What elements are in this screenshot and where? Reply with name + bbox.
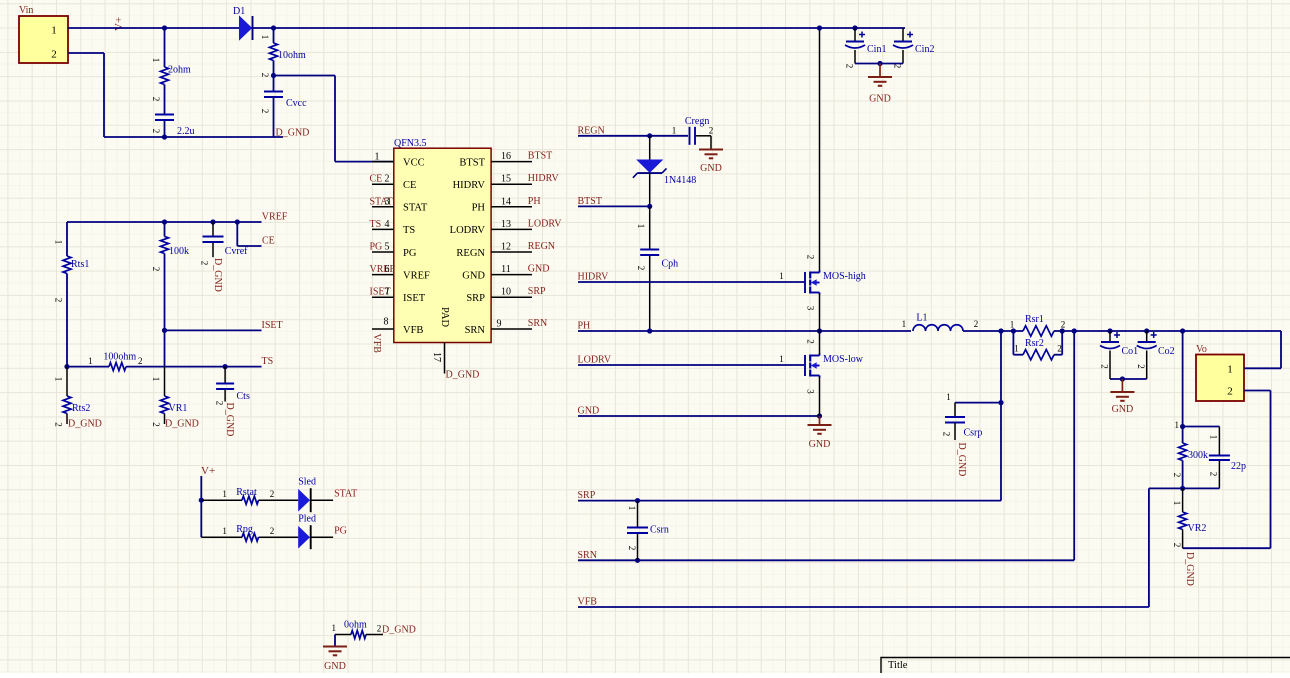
svg-text:PH: PH	[528, 196, 541, 207]
svg-text:CE: CE	[403, 180, 416, 191]
svg-text:2: 2	[151, 267, 161, 272]
svg-text:3: 3	[806, 389, 816, 394]
svg-text:GND: GND	[324, 661, 346, 672]
svg-text:D_GND: D_GND	[446, 370, 480, 381]
svg-text:2: 2	[1209, 472, 1219, 477]
svg-text:GND: GND	[809, 439, 831, 450]
svg-text:2: 2	[636, 266, 646, 271]
svg-text:D_GND: D_GND	[68, 419, 102, 430]
svg-text:Rts2: Rts2	[72, 403, 90, 414]
svg-text:Title: Title	[888, 660, 908, 671]
svg-text:Co2: Co2	[1158, 346, 1175, 357]
svg-text:13: 13	[501, 219, 511, 230]
svg-text:CE: CE	[262, 236, 275, 247]
svg-text:D_GND: D_GND	[212, 258, 223, 292]
svg-text:2: 2	[806, 339, 816, 344]
svg-text:GND: GND	[528, 264, 550, 275]
svg-text:2: 2	[1057, 344, 1062, 354]
svg-text:1: 1	[672, 125, 677, 135]
svg-text:2.2u: 2.2u	[177, 126, 195, 137]
svg-text:8: 8	[384, 317, 389, 328]
svg-text:Cin1: Cin1	[867, 44, 886, 55]
svg-text:10ohm: 10ohm	[278, 50, 306, 61]
svg-text:Cregn: Cregn	[685, 116, 709, 127]
svg-text:1: 1	[779, 271, 784, 281]
svg-text:TS: TS	[262, 356, 274, 367]
svg-text:REGN: REGN	[578, 125, 605, 136]
svg-text:14: 14	[501, 196, 511, 207]
svg-text:2: 2	[1172, 543, 1182, 548]
svg-text:VREF: VREF	[262, 212, 288, 223]
svg-text:1: 1	[627, 506, 637, 511]
svg-text:VFB: VFB	[403, 325, 423, 336]
svg-text:12: 12	[501, 242, 511, 253]
svg-text:1: 1	[54, 377, 64, 382]
svg-text:VFB: VFB	[371, 334, 382, 354]
svg-text:SRP: SRP	[528, 286, 546, 297]
svg-text:STAT: STAT	[334, 489, 357, 500]
svg-text:2: 2	[1136, 364, 1146, 369]
svg-text:1: 1	[151, 377, 161, 382]
svg-text:2: 2	[200, 261, 210, 266]
svg-text:VREF: VREF	[370, 264, 396, 275]
svg-text:SRN: SRN	[578, 550, 597, 561]
svg-text:VR2: VR2	[1188, 523, 1207, 534]
svg-text:2: 2	[151, 129, 161, 134]
svg-text:PG: PG	[403, 248, 417, 259]
svg-text:2: 2	[974, 319, 979, 329]
svg-text:9: 9	[497, 319, 502, 330]
svg-text:ISET: ISET	[262, 320, 283, 331]
svg-text:D1: D1	[233, 6, 245, 17]
svg-text:VR1: VR1	[169, 403, 188, 414]
svg-text:100k: 100k	[169, 246, 189, 257]
svg-text:17: 17	[431, 352, 442, 362]
svg-text:1: 1	[151, 58, 161, 63]
svg-text:Rsr1: Rsr1	[1025, 314, 1044, 325]
svg-text:ISET: ISET	[403, 293, 426, 304]
svg-text:1: 1	[1175, 420, 1180, 430]
svg-text:1: 1	[1209, 435, 1219, 440]
svg-text:STAT: STAT	[403, 203, 428, 214]
svg-text:PG: PG	[334, 526, 347, 537]
svg-text:2: 2	[215, 401, 225, 406]
svg-text:Rstat: Rstat	[236, 487, 257, 498]
svg-text:2: 2	[260, 73, 270, 78]
svg-text:2: 2	[893, 64, 903, 69]
svg-text:GND: GND	[1112, 404, 1134, 415]
svg-text:1: 1	[902, 319, 907, 329]
svg-text:6: 6	[385, 264, 390, 275]
svg-text:GND: GND	[869, 94, 891, 105]
svg-text:Cvcc: Cvcc	[286, 98, 307, 109]
svg-text:2: 2	[51, 49, 57, 61]
svg-text:100ohm: 100ohm	[103, 352, 136, 363]
svg-text:16: 16	[501, 151, 511, 162]
svg-text:D_GND: D_GND	[224, 403, 235, 437]
svg-text:300k: 300k	[1188, 450, 1208, 461]
svg-text:D_GND: D_GND	[1184, 552, 1195, 586]
svg-text:TS: TS	[370, 219, 382, 230]
svg-text:2: 2	[54, 422, 64, 427]
svg-text:1: 1	[332, 623, 337, 633]
svg-text:Rts1: Rts1	[71, 259, 89, 270]
svg-text:10: 10	[501, 287, 511, 298]
svg-text:Cin2: Cin2	[915, 44, 934, 55]
svg-text:11: 11	[501, 264, 511, 275]
svg-text:1: 1	[375, 152, 380, 163]
svg-text:GND: GND	[700, 163, 722, 174]
svg-text:1: 1	[1172, 501, 1182, 506]
svg-text:0ohm: 0ohm	[344, 620, 367, 631]
svg-text:D_GND: D_GND	[382, 625, 416, 636]
svg-text:BTST: BTST	[459, 157, 485, 168]
svg-text:2: 2	[260, 109, 270, 114]
svg-text:3: 3	[385, 196, 390, 207]
svg-text:2: 2	[385, 174, 390, 185]
svg-text:2: 2	[806, 255, 816, 260]
svg-text:Rpg: Rpg	[236, 524, 253, 535]
svg-text:2: 2	[942, 432, 952, 437]
svg-text:GND: GND	[462, 270, 485, 281]
svg-text:2: 2	[151, 422, 161, 427]
svg-text:2: 2	[1227, 385, 1233, 397]
svg-text:2: 2	[1100, 364, 1110, 369]
svg-text:Cph: Cph	[662, 259, 679, 270]
svg-text:SRN: SRN	[465, 325, 486, 336]
svg-text:2ohm: 2ohm	[168, 65, 191, 76]
svg-text:HIDRV: HIDRV	[528, 173, 560, 184]
svg-text:2: 2	[377, 624, 382, 634]
svg-text:2: 2	[1172, 473, 1182, 478]
svg-text:Cts: Cts	[237, 391, 250, 402]
svg-text:Rsr2: Rsr2	[1025, 338, 1044, 349]
svg-text:1: 1	[779, 354, 784, 364]
svg-text:22p: 22p	[1231, 461, 1246, 472]
svg-text:1: 1	[51, 25, 57, 37]
svg-text:Co1: Co1	[1122, 346, 1139, 357]
svg-text:Vo: Vo	[1196, 344, 1207, 355]
svg-text:5: 5	[385, 242, 390, 253]
svg-text:BTST: BTST	[578, 196, 602, 207]
svg-text:V+: V+	[201, 465, 215, 477]
svg-text:HIDRV: HIDRV	[578, 272, 610, 283]
svg-text:1: 1	[260, 35, 270, 40]
svg-text:VCC: VCC	[403, 157, 425, 168]
svg-text:1: 1	[1014, 344, 1019, 354]
svg-text:15: 15	[501, 174, 511, 185]
svg-text:1: 1	[54, 240, 64, 245]
svg-text:D_GND: D_GND	[165, 419, 199, 430]
svg-text:1: 1	[1227, 363, 1233, 375]
svg-text:REGN: REGN	[528, 241, 555, 252]
svg-text:1: 1	[636, 224, 646, 229]
svg-text:LODRV: LODRV	[528, 218, 562, 229]
svg-text:2: 2	[270, 526, 275, 536]
svg-text:Vin: Vin	[19, 5, 33, 16]
svg-text:2: 2	[845, 64, 855, 69]
svg-text:GND: GND	[578, 406, 600, 417]
svg-text:1: 1	[222, 489, 227, 499]
svg-text:1: 1	[222, 526, 227, 536]
svg-text:PH: PH	[578, 321, 591, 332]
svg-text:1: 1	[1010, 320, 1015, 330]
svg-text:Pled: Pled	[298, 513, 316, 524]
svg-text:SRP: SRP	[578, 490, 596, 501]
svg-text:VREF: VREF	[403, 270, 430, 281]
svg-text:D_GND: D_GND	[276, 128, 310, 139]
svg-text:L1: L1	[916, 313, 927, 324]
svg-text:1: 1	[946, 392, 951, 402]
svg-text:3: 3	[806, 306, 816, 311]
svg-text:HIDRV: HIDRV	[453, 180, 486, 191]
svg-text:VFB: VFB	[578, 597, 598, 608]
svg-text:BTST: BTST	[528, 151, 552, 162]
svg-text:SRP: SRP	[466, 293, 485, 304]
svg-text:REGN: REGN	[456, 248, 485, 259]
svg-text:PH: PH	[472, 203, 486, 214]
svg-text:2: 2	[270, 489, 275, 499]
svg-text:2: 2	[627, 546, 637, 551]
svg-text:MOS-low: MOS-low	[823, 354, 864, 365]
svg-text:PG: PG	[370, 242, 383, 253]
svg-text:LODRV: LODRV	[450, 225, 486, 236]
svg-text:LODRV: LODRV	[578, 355, 612, 366]
svg-text:QFN3.5: QFN3.5	[394, 138, 427, 149]
svg-text:Cvref: Cvref	[225, 246, 248, 257]
svg-text:1N4148: 1N4148	[664, 175, 696, 186]
svg-text:Csrp: Csrp	[964, 428, 983, 439]
svg-text:Csrn: Csrn	[650, 525, 669, 536]
svg-text:7: 7	[385, 287, 390, 298]
svg-text:Sled: Sled	[298, 476, 316, 487]
svg-text:CE: CE	[370, 174, 383, 185]
svg-text:4: 4	[385, 219, 390, 230]
svg-text:MOS-high: MOS-high	[823, 271, 866, 282]
svg-text:D_GND: D_GND	[956, 443, 967, 477]
svg-text:TS: TS	[403, 225, 415, 236]
svg-text:PAD: PAD	[439, 307, 450, 327]
svg-text:2: 2	[151, 97, 161, 102]
svg-text:SRN: SRN	[528, 318, 547, 329]
svg-text:2: 2	[138, 356, 143, 366]
svg-text:2: 2	[54, 298, 64, 303]
svg-text:1: 1	[88, 356, 93, 366]
svg-text:2: 2	[709, 125, 714, 135]
svg-text:2: 2	[1061, 320, 1066, 330]
